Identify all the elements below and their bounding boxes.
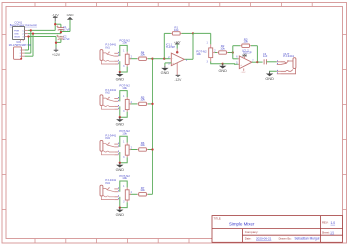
svg-text:4.7uF: 4.7uF (63, 37, 70, 41)
svg-text:-: - (172, 57, 173, 61)
svg-text:MJ-179PH-SMT-TR: MJ-179PH-SMT-TR (9, 44, 31, 47)
svg-text:GND: GND (161, 71, 170, 75)
svg-text:TITLE:: TITLE: (214, 217, 222, 221)
svg-text:IN1: IN1 (105, 45, 110, 49)
svg-text:10k: 10k (174, 28, 179, 32)
svg-text:+12V: +12V (242, 54, 248, 56)
svg-text:-12V: -12V (241, 72, 246, 74)
svg-text:10k: 10k (122, 86, 127, 90)
svg-text:-: - (240, 57, 241, 61)
svg-text:GND: GND (218, 69, 227, 73)
svg-text:-12V: -12V (52, 14, 60, 18)
svg-text:10k: 10k (140, 52, 145, 56)
svg-text:10k: 10k (140, 188, 145, 192)
svg-text:10k: 10k (140, 98, 145, 102)
svg-text:Drawn By:: Drawn By: (279, 237, 292, 241)
svg-text:GND: GND (67, 13, 75, 17)
svg-text:1uF: 1uF (263, 54, 268, 58)
svg-text:IN3: IN3 (105, 136, 110, 140)
svg-text:10k: 10k (196, 52, 201, 56)
svg-text:+12V: +12V (52, 53, 61, 57)
svg-text:Date:: Date: (245, 236, 252, 240)
svg-text:Simple Mixer: Simple Mixer (229, 222, 255, 227)
svg-text:IN2: IN2 (105, 91, 110, 95)
svg-text:10k: 10k (220, 46, 225, 50)
svg-text:Company:: Company: (245, 230, 259, 234)
svg-text:IN4: IN4 (105, 181, 110, 185)
svg-text:GND: GND (116, 123, 125, 127)
svg-text:10k: 10k (122, 176, 127, 180)
svg-text:GND: GND (116, 168, 125, 172)
svg-text:Sheet:: Sheet: (322, 230, 330, 234)
svg-text:2020-06-21: 2020-06-21 (256, 236, 272, 240)
svg-text:1.0: 1.0 (331, 221, 336, 225)
svg-text:GND: GND (265, 77, 274, 81)
svg-text:PWR: PWR (14, 30, 20, 32)
svg-text:PJ-3441: PJ-3441 (283, 54, 294, 58)
svg-text:10k: 10k (140, 143, 145, 147)
svg-text:10k: 10k (243, 40, 248, 44)
svg-text:GNDB: GNDB (14, 37, 20, 39)
svg-text:+12V: +12V (174, 40, 181, 44)
svg-text:-12V: -12V (174, 78, 182, 82)
svg-text:GND: GND (14, 34, 19, 36)
svg-text:4.7uF: 4.7uF (63, 28, 70, 32)
svg-text:GND: GND (116, 77, 125, 81)
svg-text:GND: GND (116, 213, 125, 217)
svg-text:Sebastian Murgul: Sebastian Murgul (295, 237, 320, 241)
svg-text:10k: 10k (122, 41, 127, 45)
svg-text:TL072P: TL072P (166, 45, 175, 49)
svg-text:1/1: 1/1 (330, 230, 334, 234)
svg-text:10k: 10k (122, 131, 127, 135)
svg-text:REV:: REV: (322, 221, 329, 225)
